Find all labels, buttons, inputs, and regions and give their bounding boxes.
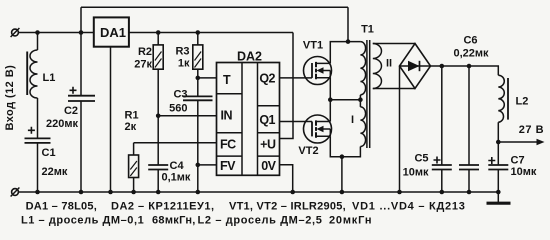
svg-text:DA2: DA2 [237,49,262,63]
svg-text:R3: R3 [175,46,189,58]
svg-text:10мк: 10мк [511,166,537,178]
svg-text:220мк: 220мк [46,118,78,130]
svg-text:0,1мк: 0,1мк [162,172,191,184]
svg-text:DA1 – 78L05,: DA1 – 78L05, [26,201,97,213]
svg-text:0V: 0V [261,159,276,173]
svg-text:27к: 27к [134,59,152,71]
svg-text:Q2: Q2 [259,72,275,86]
svg-text:1к: 1к [178,58,190,70]
svg-text:T: T [223,73,231,87]
svg-text:FC: FC [220,138,236,152]
svg-text:C4: C4 [170,160,185,172]
svg-text:IN: IN [221,109,233,123]
svg-text:0,22мк: 0,22мк [453,48,489,60]
svg-text:VT2: VT2 [298,145,318,157]
svg-text:L1 – дросель ДМ–0,1: L1 – дросель ДМ–0,1 [21,214,144,226]
svg-text:R1: R1 [125,110,139,122]
svg-text:2к: 2к [125,121,137,133]
svg-text:R2: R2 [138,46,152,58]
svg-text:II: II [386,57,392,69]
svg-text:L2: L2 [516,96,529,108]
svg-text:FV: FV [220,159,236,173]
svg-text:20мкГн: 20мкГн [329,214,372,226]
svg-text:Q1: Q1 [259,113,275,127]
svg-text:C3: C3 [173,89,187,101]
svg-text:L2 – дросель ДМ–2,5: L2 – дросель ДМ–2,5 [198,214,323,226]
svg-text:10мк: 10мк [403,167,429,179]
svg-text:C6: C6 [463,35,477,47]
svg-text:VT1, VT2 – IRLR2905,: VT1, VT2 – IRLR2905, [229,201,346,213]
svg-text:C1: C1 [42,147,56,159]
svg-text:VD1 ...VD4 – КД213: VD1 ...VD4 – КД213 [352,201,466,213]
svg-text:68мкГн,: 68мкГн, [152,214,196,226]
svg-text:+U: +U [260,138,276,152]
svg-text:C2: C2 [64,105,78,117]
svg-text:L1: L1 [43,72,56,84]
svg-text:560: 560 [169,103,187,115]
svg-text:I: I [351,114,354,126]
svg-text:Вход (12 В): Вход (12 В) [4,65,16,131]
svg-text:22мк: 22мк [42,166,68,178]
svg-text:DA1: DA1 [100,25,126,40]
svg-text:C5: C5 [414,153,428,165]
svg-text:VT1: VT1 [303,40,323,52]
svg-text:C7: C7 [511,155,525,167]
svg-text:DA2 – КР1211ЕУ1,: DA2 – КР1211ЕУ1, [111,201,215,213]
svg-text:T1: T1 [361,23,374,35]
svg-text:27 В: 27 В [519,124,544,136]
